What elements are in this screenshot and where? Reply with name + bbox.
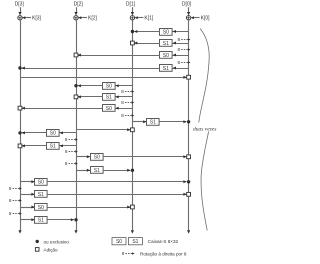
adder on D[1] y130 [131,128,135,132]
svg-text:S0: S0 [106,106,112,112]
rotate-right-8 on D[3] y213.4 [9,211,22,216]
adder on D[2] y96.9 [74,95,78,99]
wire D[2] to adder on D[1] (y130) [76,128,130,131]
wire s-box g2 output to D[3] [22,107,103,110]
svg-text:S0: S0 [50,131,56,137]
xor node on D[2] y219.8 [74,218,77,221]
wire D[3] tap to s-box g4 row4 [20,218,35,221]
output arrow D[0] [187,230,190,233]
output arrow D[2] [74,230,77,233]
svg-text:D[0]: D[0] [182,2,192,8]
adder on D[0] y77 [187,75,191,79]
node D[3] input label [15,2,25,16]
svg-text:K[2]: K[2] [88,16,98,22]
wire s-box output to D[2] [78,54,160,57]
xor (key mixing) on D[2] [74,16,78,20]
svg-text:S0: S0 [163,53,169,59]
svg-text:S0: S0 [106,84,112,90]
wire s-box g3 row3 output to D[0] [103,155,187,158]
adder on D[3] y108.1 [18,106,22,110]
xor node on D[3] y68.0 [18,66,21,69]
svg-text:D[2]: D[2] [74,2,84,8]
svg-text:8: 8 [9,186,12,191]
svg-text:8: 8 [122,251,125,256]
svg-text:8: 8 [121,113,124,118]
legend s-box S1 [128,238,142,246]
svg-text:S1: S1 [150,120,156,126]
wire D[3] column [20,20,22,230]
adder on D[3] y145.9 [18,144,22,148]
output arrow D[1] [131,230,134,233]
svg-text:8: 8 [178,60,181,65]
wire s-box g3 output to D[3] [22,131,47,134]
legend xor symbol [36,240,39,243]
rotate-right-8 on D[1] y115.3 [121,113,134,118]
legend rotate symbol [122,251,135,256]
key input K[2] [79,16,98,22]
xor node on D[1] y170.3 [131,169,134,172]
rotate-right-8 on D[1] y91.5 [121,89,134,94]
xor node on D[2] y85.7 [74,84,77,87]
svg-text:duas vezes: duas vezes [193,127,216,133]
legend xor text [44,239,70,244]
wire D[2] tap to s-box g3 row3 [76,155,90,158]
wire D[2] tap to s-box g3 row4 [76,169,90,172]
svg-text:8: 8 [121,100,124,105]
svg-text:S0: S0 [38,180,44,186]
wire s-box g3 output to D[3] [22,144,47,147]
wire D[0] column [188,20,190,230]
adder on D[1] y43.0 [131,41,135,45]
svg-text:Caixas-S 8×32: Caixas-S 8×32 [148,239,179,244]
legend rotate text [140,252,187,257]
wire s-box output to D[3] [22,67,160,70]
svg-text:8: 8 [65,161,68,166]
node D[1] input label [126,2,136,16]
svg-text:D[3]: D[3] [15,2,25,8]
wire s-box g4 row1 output to D[0] [47,180,186,183]
s-box S0 (group2 row1) [103,83,116,90]
rotate-right-8 on D[0] y39.0 [178,37,191,42]
s-box S0 (group2 row3) [103,105,116,112]
svg-text:S1: S1 [163,66,169,72]
wire D[3] tap to s-box g4 row2 [20,193,35,196]
s-box S1 (group4 row2) [35,191,48,199]
wire s-box g4 row3 output to D[1] [47,206,130,209]
wire D[0] tap to s-box row1 [173,30,189,33]
s-box S1 (group3 row2) [47,143,60,150]
legend adder text [44,247,58,252]
wire D[3] tap to s-box g4 row3 [20,206,35,209]
xor (key mixing) on D[3] [18,16,22,20]
svg-text:Rotação à direita por 8: Rotação à direita por 8 [140,252,187,257]
adder on D[0] y156.8 [187,155,191,159]
xor node on D[3] y132.9 [18,131,21,134]
brace (repeat twice) lower arc [201,132,209,231]
wire D[1] tap to s-box g2 row3 [115,107,132,110]
key input K[0] [191,16,210,22]
svg-text:8: 8 [65,137,68,142]
wire D[3] to adder on D[0] (y77) [20,76,187,79]
s-box S0 (group4 row3) [35,204,48,211]
svg-text:S1: S1 [38,192,44,198]
wire D[1] column [132,20,134,230]
svg-text:8: 8 [178,47,181,52]
wire s-box g4 row2 output to D[0] [47,193,186,196]
legend s-box S0 [112,238,126,246]
svg-text:S0: S0 [163,29,169,35]
key input K[1] [135,16,154,22]
wire s-box output to D[1] [134,30,160,33]
adder on D[1] y207.0 [131,205,135,209]
svg-text:ou exclusivo: ou exclusivo [44,239,70,244]
svg-text:8: 8 [9,198,12,203]
wire D[2] tap to s-box g3 row1 [59,131,76,134]
svg-text:S1: S1 [94,168,100,174]
svg-text:Adição: Adição [44,247,58,252]
wire s-box g4 row4 output to D[2] [47,218,74,221]
svg-text:D[1]: D[1] [126,2,136,8]
svg-text:S1: S1 [50,144,56,150]
svg-text:S0: S0 [38,205,44,211]
rotate-right-8 on D[1] y102.7 [121,100,134,105]
s-box S1 (group4 row4) [35,217,48,224]
svg-text:S1: S1 [163,41,169,47]
s-box S0 (group4 row1) [35,179,48,186]
rotate-right-8 on D[0] y62.0 [178,60,191,65]
svg-text:S1: S1 [38,218,44,224]
wire s-box g2 row4 output to D[0] [159,120,186,123]
wire D[0] tap to s-box row4 [173,67,189,70]
s-box S0 (group3 row1) [47,130,60,137]
rotate-right-8 on D[2] y151.5 [65,149,78,154]
legend adder symbol [35,248,39,252]
wire D[1] tap to s-box g2 row4 [132,120,146,123]
adder on D[2] y55.0 [74,53,78,57]
s-box S0 (group3 row3) [91,154,104,161]
wire D[0] tap to s-box row2 [173,42,189,45]
node D[2] input label [74,2,84,16]
rotate-right-8 on D[2] y139.6 [65,137,78,142]
wire s-box g2 output to D[2] [78,84,103,87]
rotate-right-8 on D[2] y163.8 [65,161,78,166]
svg-text:S0: S0 [116,239,122,245]
output arrow D[3] [18,230,21,233]
svg-text:8: 8 [65,149,68,154]
svg-text:K[1]: K[1] [144,16,154,22]
wire s-box output to D[1] [134,42,160,45]
s-box S1 (group2 row2) [103,94,116,101]
wire D[2] column [76,20,78,230]
rotate-right-8 on D[0] y49.6 [178,47,191,52]
svg-text:S0: S0 [94,155,100,161]
s-box S0 (group1 row3) [160,52,173,59]
wire D[2] tap to s-box g3 row2 [59,144,76,147]
svg-text:K[3]: K[3] [32,16,42,22]
wire D[3] tap to s-box g4 row1 [20,180,35,183]
brace (repeat twice) upper arc [199,29,209,123]
xor node on D[0] y122 [187,120,190,123]
xor (key mixing) on D[1] [130,16,134,20]
svg-text:8: 8 [121,89,124,94]
svg-text:K[0]: K[0] [201,16,211,22]
svg-text:8: 8 [9,211,12,216]
wire s-box g2 output to D[2] [78,95,103,98]
s-box S1 (group1 row2) [160,40,173,47]
wire D[1] tap to s-box g2 row2 [115,95,132,98]
label duas vezes [193,127,216,133]
svg-text:8: 8 [178,37,181,42]
key input K[3] [23,16,42,22]
xor node on D[0] y181.8 [187,180,190,183]
wire D[0] tap to s-box row3 [173,54,189,57]
s-box S0 (group1 row1) [160,29,173,36]
wire s-box g3 row4 output to D[1] [103,169,131,172]
rotate-right-8 on D[3] y188.0 [9,186,22,191]
xor node on D[1] y31.5 [131,30,134,33]
s-box S1 (group1 row4) [160,65,173,72]
wire D[1] tap to s-box g2 row1 [115,84,132,87]
adder on D[0] y194.3 [187,192,191,196]
s-box S1 (group3 row4) [91,167,104,175]
svg-text:S1: S1 [106,95,112,101]
rotate-right-8 on D[3] y200.6 [9,198,22,203]
xor (key mixing) on D[0] [186,16,190,20]
node D[0] input label [182,2,192,16]
svg-text:S1: S1 [132,239,138,245]
s-box S1 (group2 row4) [147,119,160,126]
legend s-box text [148,239,179,244]
